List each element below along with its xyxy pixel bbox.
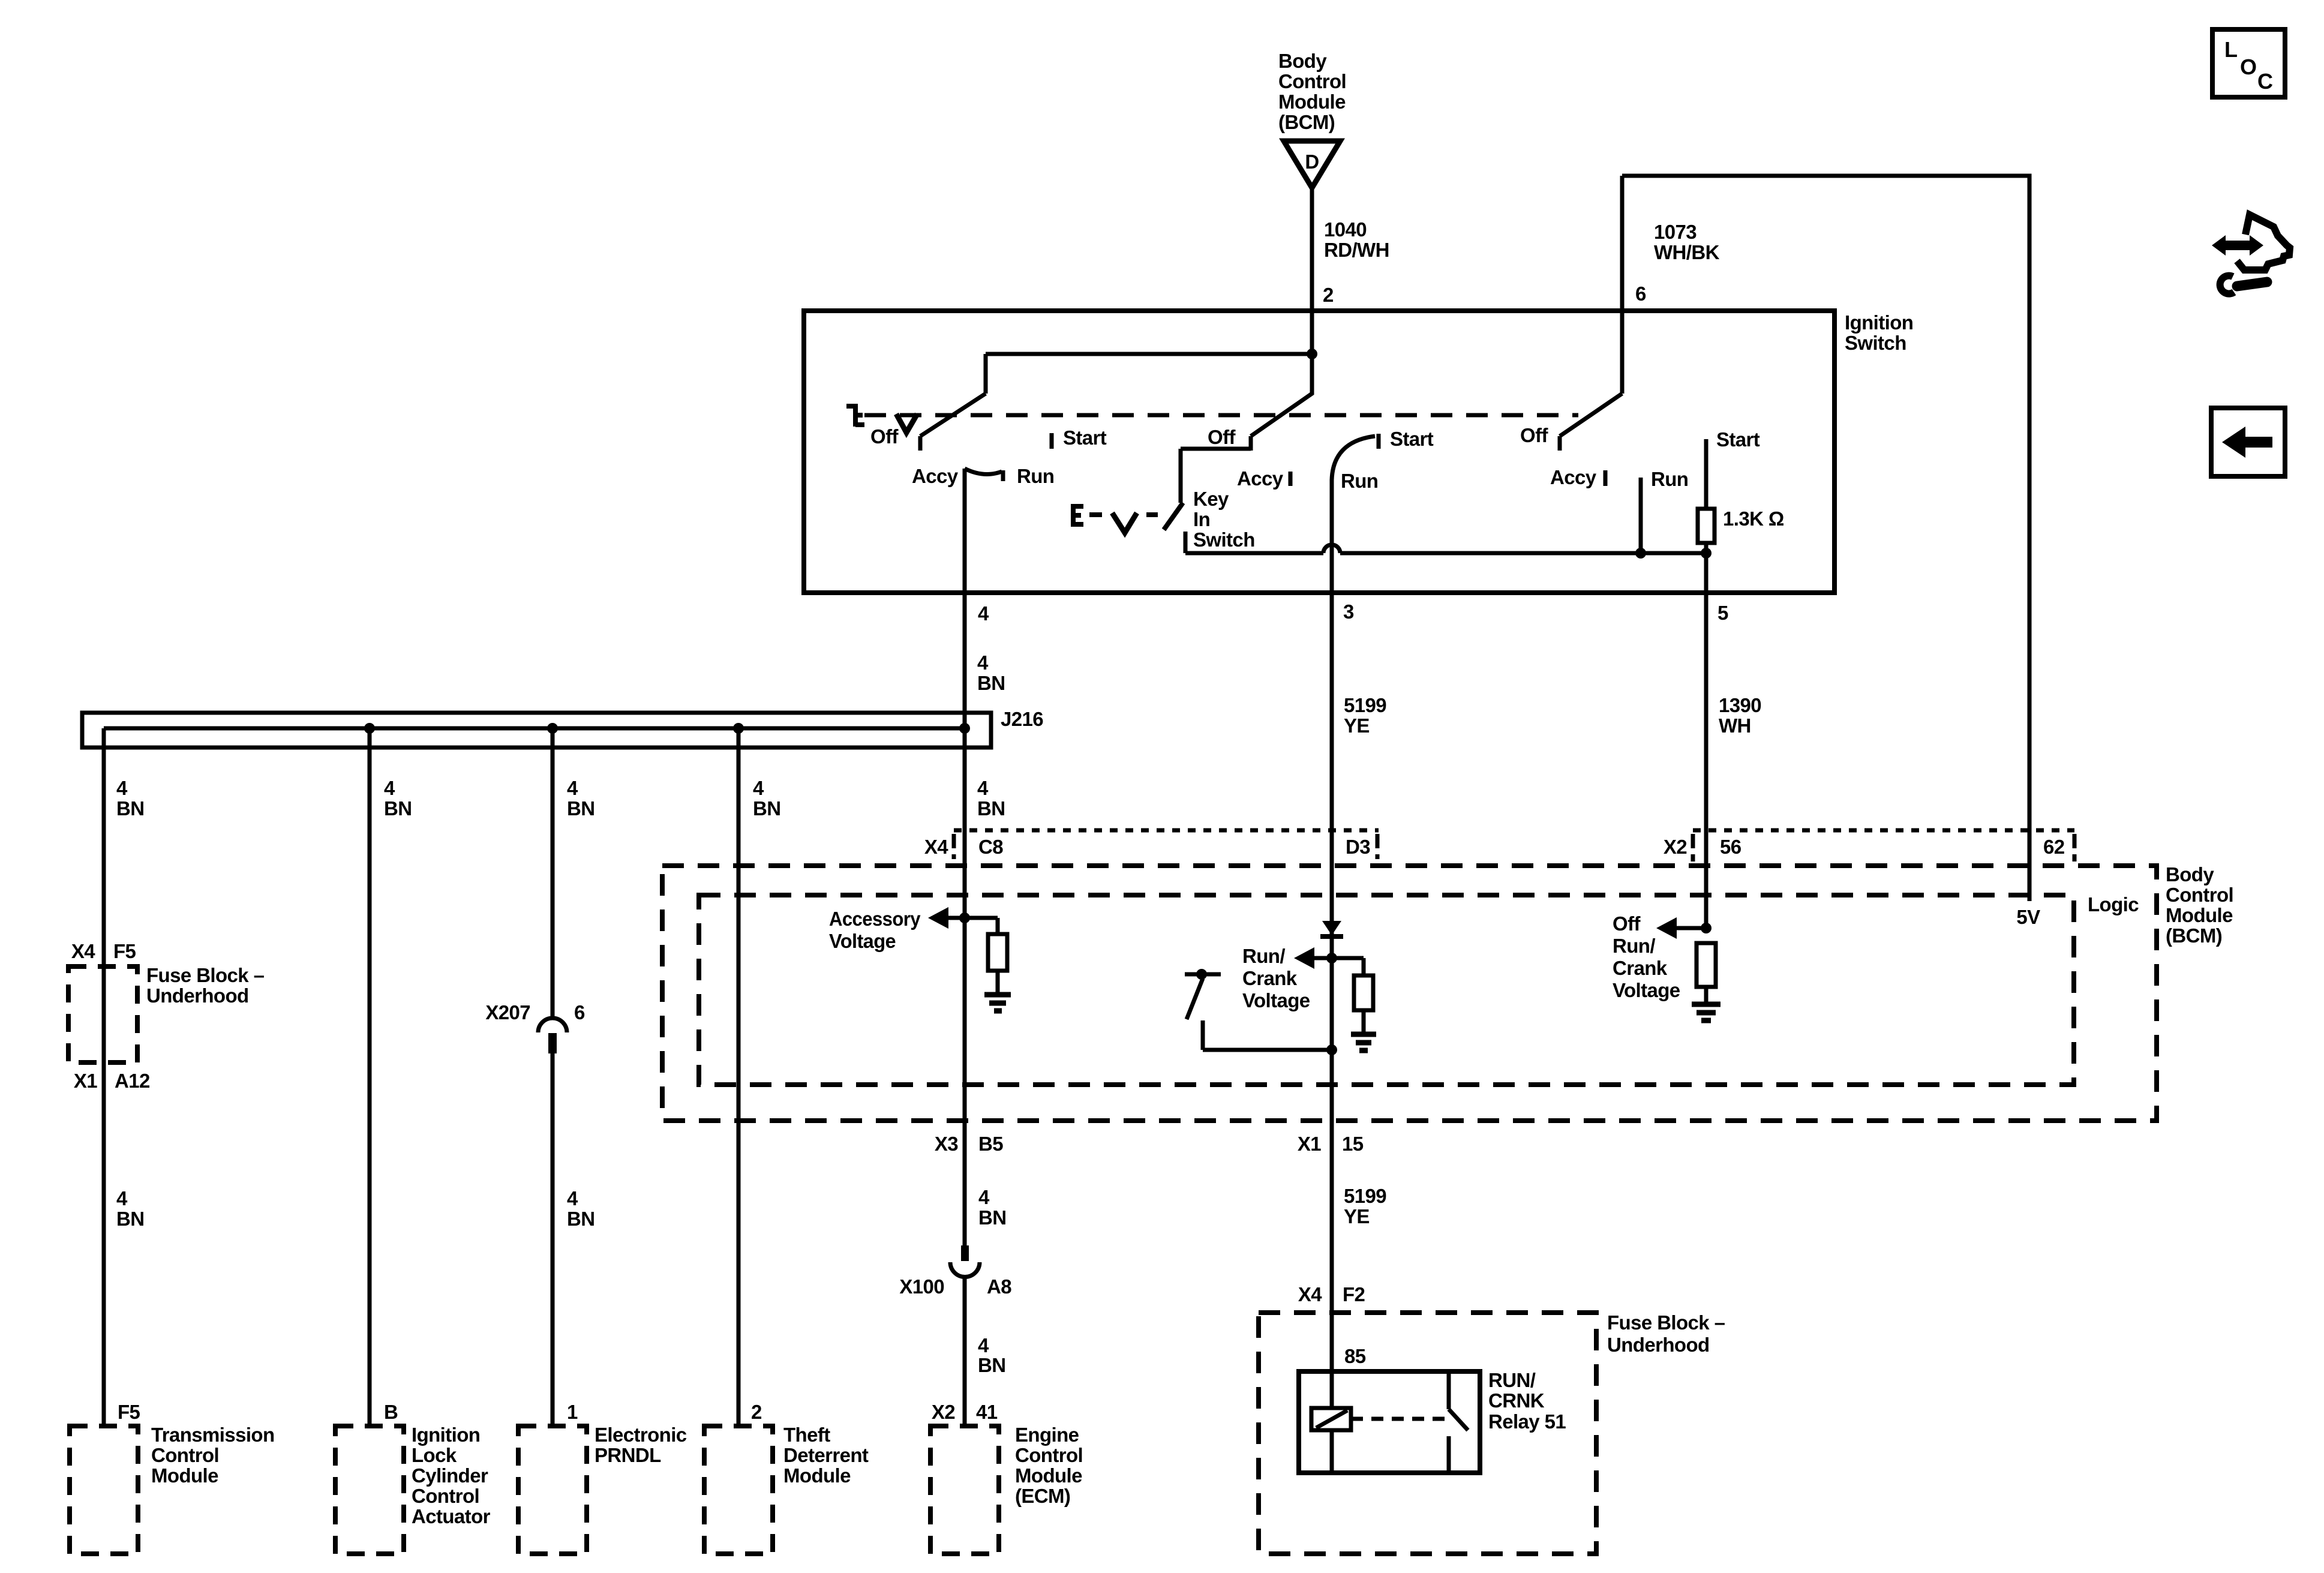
svg-text:B: B (384, 1401, 398, 1423)
svg-text:B5: B5 (978, 1133, 1003, 1155)
BCM internal switch blade (1187, 978, 1203, 1019)
contact arc: Accy wiper (left gang) (965, 469, 1002, 474)
wire: coil return below (1330, 1430, 1334, 1473)
key-in switch blade (1164, 503, 1183, 530)
svg-text:Relay 51: Relay 51 (1488, 1410, 1566, 1433)
junction: off/run/crank voltage tap (pin 56) (1701, 923, 1712, 933)
label: Ignition Switch (1845, 311, 1913, 354)
svg-text:4: 4 (567, 777, 578, 799)
svg-text:Run/: Run/ (1613, 935, 1655, 957)
ground (pin 56 pulldown) (1692, 1004, 1721, 1020)
svg-text:BN: BN (753, 797, 780, 819)
svg-text:4: 4 (978, 1186, 990, 1208)
svg-text:Transmission: Transmission (151, 1424, 275, 1446)
svg-text:Deterrent: Deterrent (783, 1444, 869, 1466)
svg-text:WH/BK: WH/BK (1654, 241, 1720, 263)
svg-text:X2: X2 (932, 1401, 955, 1423)
svg-text:Body: Body (2166, 863, 2214, 885)
svg-text:4: 4 (116, 777, 128, 799)
wire: middle gang step to key-in switch (1181, 449, 1251, 503)
resistor R2 (accessory voltage pulldown) (988, 934, 1007, 971)
BCM inner logic dashed boundary (699, 895, 2074, 1085)
svg-text:Actuator: Actuator (412, 1505, 491, 1527)
switch blade S1b (middle gang, Off position) (1251, 354, 1312, 451)
relay actuation dashed link (1351, 1417, 1445, 1421)
svg-text:56: 56 (1720, 836, 1742, 858)
svg-text:BN: BN (384, 797, 412, 819)
check symbol (left gang) (896, 414, 917, 433)
wire: internal feed bus from pin 2 to left gang (986, 352, 1312, 356)
svg-text:CRNK: CRNK (1488, 1389, 1545, 1412)
value label: 4 BN (PRNDL leg) (567, 1187, 594, 1230)
wire: branch to X207 (electronic PRNDL) (551, 728, 555, 1019)
connector X207 pin 6 labels (485, 1001, 585, 1023)
BCM internal switch contact stub (1185, 972, 1221, 977)
relay switch contact (1449, 1371, 1468, 1473)
pin labels X4 / F2 (fuse block underhood) (1298, 1283, 1365, 1305)
svg-text:1: 1 (567, 1401, 578, 1423)
relay K1 RUN/CRNK Relay 51 box (1299, 1371, 1480, 1473)
svg-text:WH: WH (1719, 715, 1751, 737)
svg-text:Run: Run (1017, 465, 1054, 487)
svg-text:Ignition: Ignition (412, 1424, 480, 1446)
pin labels X4 / F5 (fuse block underhood) (71, 940, 136, 962)
lock cylinder position symbol (846, 404, 864, 427)
dashed gang coupling line (864, 413, 1578, 418)
svg-text:Control: Control (151, 1444, 219, 1466)
arrow: accessory voltage signal (928, 907, 948, 929)
pin labels X1 / A12 (fuse block underhood) (74, 1070, 150, 1092)
svg-text:2: 2 (1323, 284, 1334, 306)
svg-text:5199: 5199 (1344, 1185, 1386, 1207)
wire: Start leg (right gang) (1704, 439, 1709, 509)
svg-text:4: 4 (384, 777, 395, 799)
svg-text:Underhood: Underhood (1607, 1334, 1710, 1356)
connector X207 symbol (538, 1018, 567, 1053)
svg-text:62: 62 (2043, 836, 2065, 858)
label: Body Control Module (BCM) (2166, 863, 2233, 947)
svg-text:41: 41 (976, 1401, 998, 1423)
key symbol E (key-in switch) (1073, 504, 1083, 527)
svg-text:F5: F5 (113, 940, 136, 962)
svg-text:Off: Off (1520, 424, 1548, 446)
fuse block underhood pass-through box (left) (68, 966, 137, 1062)
contact tick: Accy (right gang) (1604, 470, 1608, 486)
svg-text:4: 4 (567, 1187, 578, 1209)
svg-text:5199: 5199 (1344, 694, 1386, 716)
svg-text:6: 6 (574, 1001, 585, 1023)
pin labels X4 / C8 (924, 836, 1003, 858)
svg-text:Run/: Run/ (1242, 945, 1285, 967)
key-in switch lower contact (1184, 532, 1188, 553)
label: RUN/CRNK Relay 51 (1488, 1369, 1566, 1433)
diode D1 on BCM pin D3 input (1320, 921, 1343, 936)
label: Electronic PRNDL (594, 1424, 687, 1466)
label: Transmission Control Module (151, 1424, 275, 1487)
pin labels X2 / 41 (engine control module) (932, 1401, 998, 1423)
svg-text:Lock: Lock (412, 1444, 457, 1466)
connector strip X2 (pins 56, 62) (1693, 830, 2074, 861)
svg-text:Module: Module (151, 1464, 218, 1487)
arrow: run/crank voltage signal (1294, 947, 1332, 969)
svg-text:Off: Off (1613, 912, 1641, 935)
svg-text:J216: J216 (1001, 708, 1043, 730)
wire: circuit 1073 WH/BK down to ignition switch pin 6 (1620, 176, 1625, 394)
junction: J216 branch 3 (547, 723, 558, 734)
svg-text:BN: BN (978, 1206, 1006, 1229)
junction: J216 branch 4 (733, 723, 744, 734)
svg-text:Underhood: Underhood (146, 984, 249, 1007)
svg-text:Key: Key (1193, 488, 1229, 510)
svg-text:D: D (1305, 151, 1319, 173)
svg-text:Ignition: Ignition (1845, 311, 1913, 334)
svg-text:4: 4 (977, 777, 989, 799)
fuse block underhood dashed boundary (relay) (1259, 1313, 1596, 1554)
dash (key-in symbol) (1089, 512, 1102, 517)
resistor R4 (pin 56 pulldown) (1697, 943, 1716, 987)
svg-text:X4: X4 (924, 836, 948, 858)
wire: J216 bus (104, 727, 965, 731)
wire: circuit 4 BN from pin 4 down through splice J216 to ECM (963, 469, 967, 1245)
contact tick: Start (left gang) (1050, 433, 1054, 449)
label: Ignition Lock Cylinder Control Actuator (412, 1424, 491, 1527)
ground (accessory pulldown) (984, 995, 1011, 1011)
power triangle D (feed from BCM) (1284, 141, 1340, 188)
svg-text:BN: BN (977, 672, 1005, 694)
svg-text:2: 2 (751, 1401, 762, 1423)
value label: 4 BN (pin 4 leg) (977, 652, 1005, 694)
junction: J216 branch 2 (364, 723, 375, 734)
svg-text:Crank: Crank (1242, 967, 1298, 989)
svg-text:Module: Module (1015, 1464, 1082, 1487)
BCM outer dashed boundary (662, 866, 2157, 1121)
wire: branch to theft deterrent module (737, 728, 741, 1426)
svg-text:1390: 1390 (1719, 694, 1761, 716)
ground (run/crank pulldown) (1351, 1034, 1376, 1050)
resistor R3 (run/crank pulldown) (1354, 975, 1373, 1010)
svg-text:Start: Start (1063, 427, 1107, 449)
svg-text:4: 4 (978, 602, 989, 625)
svg-text:C8: C8 (978, 836, 1003, 858)
wire: pin 5 leg down to BCM pin 56 (1704, 543, 1709, 928)
label: Fuse Block - Underhood (1607, 1311, 1725, 1356)
svg-text:Fuse Block –: Fuse Block – (1607, 1311, 1725, 1334)
svg-text:X1: X1 (74, 1070, 97, 1092)
wire: resistor to ground (1704, 987, 1709, 1002)
svg-text:A8: A8 (987, 1275, 1011, 1298)
svg-text:(ECM): (ECM) (1015, 1485, 1070, 1507)
svg-text:F2: F2 (1343, 1283, 1365, 1305)
svg-text:Module: Module (783, 1464, 851, 1487)
value labels: 4 BN under splice J216 (116, 777, 1005, 819)
value label: 4 BN (ECM leg) (978, 1186, 1006, 1229)
theft deterrent module box (704, 1426, 773, 1554)
label: Engine Control Module (ECM) (1015, 1424, 1083, 1507)
wire: resistor to ground (996, 971, 1000, 992)
svg-text:Accy: Accy (1550, 466, 1597, 488)
svg-text:Control: Control (2166, 884, 2233, 906)
svg-text:O: O (2240, 55, 2257, 79)
junction: accessory voltage tap (959, 912, 970, 923)
switch blade S1c (right gang, Off position) (1560, 394, 1622, 451)
svg-text:F5: F5 (118, 1401, 140, 1423)
pin labels X1 / 15 (BCM pass-through) (1298, 1133, 1364, 1155)
svg-text:Voltage: Voltage (829, 930, 896, 952)
svg-text:Run: Run (1341, 470, 1378, 492)
legend: LOC reference box (2212, 29, 2285, 97)
svg-text:C: C (2257, 69, 2273, 94)
svg-text:BN: BN (567, 797, 594, 819)
junction: J216 feed (959, 723, 970, 734)
junction: internal switch return (1326, 1044, 1337, 1055)
transmission control module box (70, 1426, 138, 1554)
svg-text:BN: BN (116, 1208, 144, 1230)
junction: internal switch pivot (1196, 969, 1207, 980)
label: Fuse Block - Underhood (146, 964, 265, 1007)
resistor R1 1.3K in Start leg (1698, 509, 1715, 543)
label: Theft Deterrent Module (783, 1424, 869, 1487)
wire: PRNDL leg below X207 (551, 1053, 555, 1426)
wire: resistor to ground (1362, 1010, 1366, 1032)
svg-text:4: 4 (978, 1334, 989, 1356)
svg-text:X207: X207 (485, 1001, 530, 1023)
arrow: off/run/crank voltage signal (1656, 917, 1706, 939)
wire: ECM leg below X100 (963, 1277, 967, 1426)
junction: run/crank voltage tap (1326, 953, 1337, 963)
svg-text:YE: YE (1344, 1205, 1370, 1227)
junction on pin 2 feed (1307, 349, 1317, 359)
svg-text:4: 4 (753, 777, 764, 799)
svg-text:Control: Control (1015, 1444, 1083, 1466)
relay coil (1311, 1408, 1351, 1430)
svg-text:Electronic: Electronic (594, 1424, 687, 1446)
svg-text:BN: BN (977, 797, 1005, 819)
svg-text:15: 15 (1342, 1133, 1364, 1155)
label: Key In Switch (1193, 488, 1255, 551)
value label: 4 BN (TCM leg) (116, 1187, 144, 1230)
contact tick: Run (left gang) (1001, 470, 1005, 481)
svg-text:D3: D3 (1346, 836, 1370, 858)
wire: circuit 1040 RD/WH, triangle D to ignition switch pin 2 (1310, 188, 1314, 394)
value label: 4 BN (below X100) (978, 1334, 1005, 1376)
wire: Run leg of middle gang with curve to Start contact, down to pin 3 (1332, 436, 1375, 1408)
svg-text:3: 3 (1343, 601, 1354, 623)
pin labels X3 / B5 (BCM pass-through) (935, 1133, 1003, 1155)
svg-text:BN: BN (116, 797, 144, 819)
svg-text:Switch: Switch (1193, 529, 1255, 551)
svg-text:1040: 1040 (1324, 218, 1367, 241)
svg-text:Off: Off (1208, 426, 1236, 448)
connector strip X4 (pins C8, D3) (954, 830, 1379, 859)
svg-text:PRNDL: PRNDL (594, 1444, 661, 1466)
svg-text:Body: Body (1278, 50, 1327, 72)
value label: 5199 YE (lower) (1344, 1185, 1386, 1227)
svg-text:X2: X2 (1664, 836, 1687, 858)
value label: 1390 WH (1719, 694, 1761, 737)
svg-text:6: 6 (1635, 283, 1646, 305)
ignition lock cylinder control actuator box (335, 1426, 404, 1554)
svg-text:Crank: Crank (1613, 957, 1668, 979)
svg-text:L: L (2224, 37, 2238, 62)
svg-text:(BCM): (BCM) (1278, 111, 1335, 133)
wire: Run leg (right gang) (1639, 478, 1643, 553)
legend: service/diagnostics icon (dog head, double arrow, wrench) (2212, 215, 2290, 294)
svg-text:Start: Start (1390, 428, 1434, 450)
wire: left gang common drop (984, 354, 988, 394)
svg-text:Accessory: Accessory (829, 908, 921, 930)
contact tick: Accy (middle gang) (1289, 472, 1293, 486)
svg-text:Switch: Switch (1845, 332, 1906, 354)
svg-text:5: 5 (1718, 602, 1728, 624)
check symbol (key-in switch) (1112, 513, 1137, 533)
switch blade S1a (left gang, Off position) (920, 394, 986, 451)
svg-text:(BCM): (BCM) (2166, 924, 2222, 947)
pin labels X2 / 56 (1664, 836, 1742, 858)
net label: Run/Crank Voltage (1242, 945, 1310, 1011)
wire: internal switch return to pin 15 leg (1203, 1020, 1332, 1050)
junction: pin 5 output (1701, 548, 1712, 559)
svg-text:In: In (1193, 508, 1210, 530)
svg-text:Accy: Accy (912, 465, 959, 487)
svg-text:85: 85 (1344, 1345, 1366, 1367)
svg-text:Theft: Theft (783, 1424, 830, 1446)
junction: Run leg to output (1635, 548, 1646, 559)
wire: branch to ignition lock cylinder control actuator (368, 728, 372, 1426)
svg-text:Voltage: Voltage (1242, 989, 1310, 1011)
svg-text:Cylinder: Cylinder (412, 1464, 488, 1487)
connector X100 symbol (950, 1245, 980, 1277)
electronic PRNDL box (518, 1426, 587, 1554)
svg-text:X4: X4 (71, 940, 95, 962)
svg-text:Fuse Block –: Fuse Block – (146, 964, 265, 986)
svg-text:RUN/: RUN/ (1488, 1369, 1536, 1391)
svg-text:5V: 5V (2016, 906, 2040, 928)
net label: Accessory Voltage (829, 908, 921, 952)
svg-text:Voltage: Voltage (1613, 979, 1680, 1001)
legend: back arrow box (2211, 408, 2285, 476)
value label: 1040 RD/WH (1324, 218, 1389, 261)
svg-text:Logic: Logic (2088, 893, 2139, 915)
dash (key-in symbol) (1146, 512, 1158, 517)
svg-text:X3: X3 (935, 1133, 958, 1155)
svg-text:4: 4 (116, 1187, 128, 1209)
wire: tap to pulldown resistor (948, 918, 998, 934)
svg-text:Module: Module (2166, 904, 2233, 926)
value label: 1073 WH/BK (1654, 221, 1720, 263)
svg-text:Run: Run (1651, 468, 1688, 490)
splice J216 box (82, 713, 991, 748)
svg-text:Accy: Accy (1237, 467, 1284, 490)
wire: tap to pulldown resistor (1332, 958, 1364, 975)
svg-text:RD/WH: RD/WH (1324, 239, 1389, 261)
svg-text:1073: 1073 (1654, 221, 1697, 243)
svg-text:Engine: Engine (1015, 1424, 1079, 1446)
svg-text:X100: X100 (899, 1275, 944, 1298)
svg-text:X4: X4 (1298, 1283, 1322, 1305)
net label: Off Run/Crank Voltage (1613, 912, 1680, 1001)
svg-text:A12: A12 (115, 1070, 150, 1092)
node label: Body Control Module (BCM) power source (1278, 50, 1346, 133)
svg-text:Control: Control (1278, 70, 1346, 92)
pin labels X100 / A8 (899, 1275, 1011, 1298)
value label: 5199 YE (upper) (1344, 694, 1386, 737)
wire: jumper from pin 6 riser over to BCM pin 62 (1622, 176, 2029, 901)
svg-text:X1: X1 (1298, 1133, 1321, 1155)
contact tick: Start (middle gang) (1377, 434, 1381, 449)
ignition switch S1 box (804, 311, 1834, 593)
svg-text:1.3K Ω: 1.3K Ω (1723, 508, 1784, 530)
engine control module box (930, 1426, 999, 1554)
svg-text:BN: BN (567, 1208, 594, 1230)
svg-text:BN: BN (978, 1354, 1005, 1376)
svg-text:Module: Module (1278, 91, 1346, 113)
svg-text:Off: Off (870, 425, 899, 448)
svg-text:Control: Control (412, 1485, 479, 1507)
svg-text:Start: Start (1716, 428, 1760, 451)
svg-text:4: 4 (977, 652, 989, 674)
wire: key-in switch output across to pin 5 leg with hop over Run leg (1185, 545, 1706, 553)
svg-text:YE: YE (1344, 715, 1370, 737)
wire: branch to transmission control module (102, 728, 106, 1426)
